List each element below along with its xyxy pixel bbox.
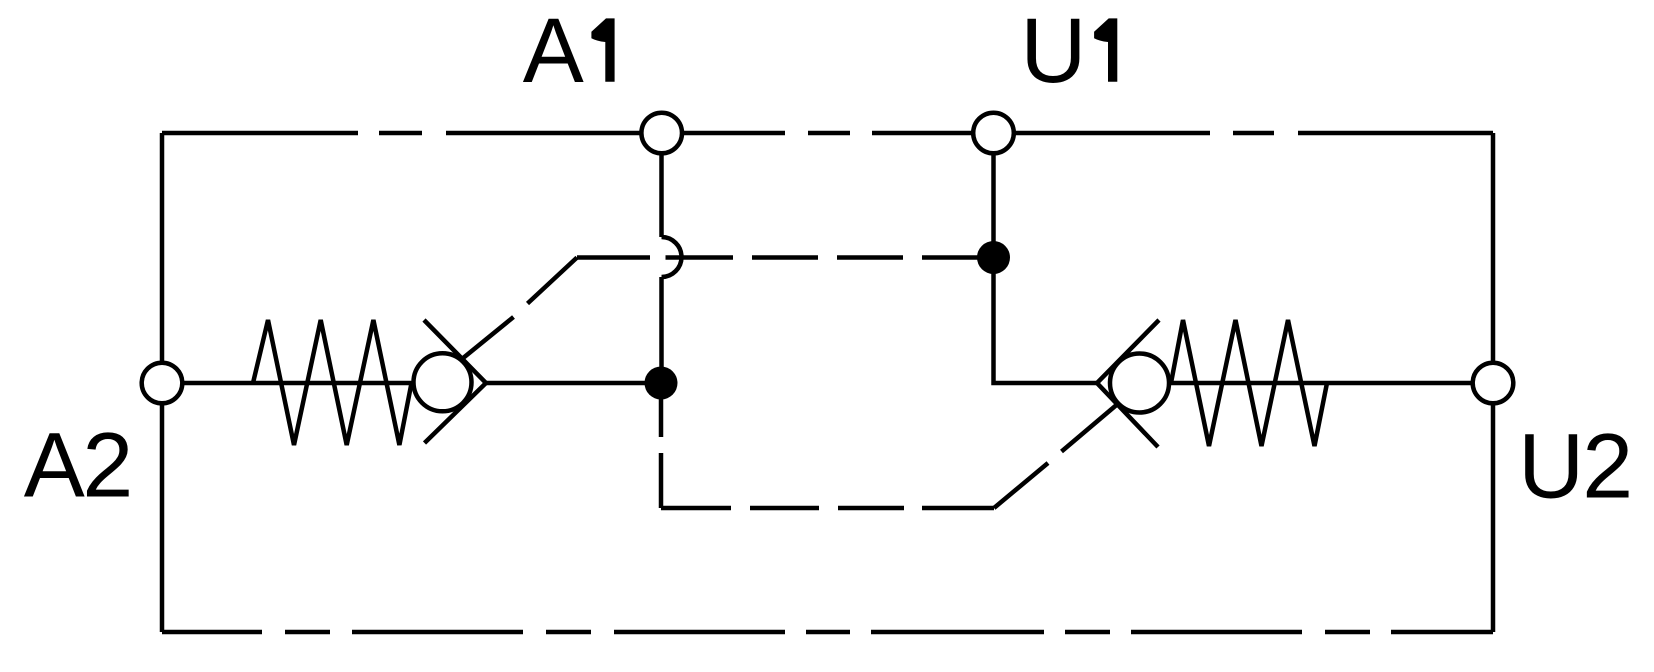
- svg-text:A: A: [523, 0, 584, 102]
- wire: pilot line from A1 junction, vertical dashed: [659, 383, 664, 508]
- port U1: [973, 113, 1014, 154]
- wire: envelope right border: [1491, 133, 1496, 632]
- valve V2 spring: [1171, 320, 1327, 446]
- wire: A1 vertical line lower part: [659, 277, 664, 383]
- wire: envelope left border: [160, 133, 165, 632]
- wire: pilot diagonal dashed to right valve: [994, 402, 1120, 508]
- junction dot on A1 line: [645, 367, 678, 400]
- wire: crossing hop of A1 line over pilot line: [662, 237, 682, 277]
- wire: pilot line horizontal dashed to U1 line: [577, 255, 978, 260]
- wire: A1 vertical line upper part: [659, 133, 664, 237]
- valve V2 seat: [1097, 320, 1159, 447]
- check valve ball left (valve V1): [414, 353, 472, 411]
- svg-text:2: 2: [1582, 415, 1633, 517]
- valve V1 spring: [253, 320, 412, 445]
- svg-text:A: A: [24, 415, 85, 517]
- svg-text:2: 2: [82, 415, 133, 517]
- wire: U1 vertical line down to right valve: [994, 133, 1098, 383]
- svg-text:U: U: [1020, 0, 1086, 102]
- wire: left valve main line A2 to junction: [183, 381, 661, 386]
- wire: pilot line from left valve, diagonal dashed: [457, 258, 577, 364]
- wire: envelope bottom border (dashed chain): [162, 630, 1493, 635]
- port U2: [1473, 363, 1514, 404]
- port A2: [142, 363, 183, 404]
- valve V1 seat: [424, 320, 486, 443]
- junction dot on U1 line: [977, 241, 1010, 274]
- wire: right valve main line to U2: [1140, 381, 1473, 386]
- wire: pilot line horizontal dashed bottom: [661, 506, 994, 511]
- check valve ball right (valve V2): [1110, 354, 1169, 413]
- svg-text:U: U: [1518, 415, 1584, 517]
- wire: envelope top border (dashed chain): [162, 131, 1493, 136]
- port A1: [641, 113, 682, 154]
